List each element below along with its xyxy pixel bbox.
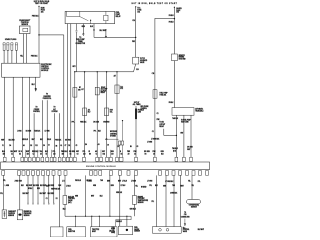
svg-text:BLK WHT: BLK WHT [198, 229, 204, 231]
svg-text:BRN: BRN [111, 185, 114, 187]
svg-text:PUMP: PUMP [111, 229, 115, 231]
svg-text:TO TCC: TO TCC [140, 58, 145, 60]
svg-text:SENSOR: SENSOR [138, 202, 144, 204]
svg-text:CHB BLK: CHB BLK [116, 221, 122, 223]
svg-text:FUEL: FUEL [111, 227, 115, 229]
svg-text:DK GRN: DK GRN [26, 131, 31, 133]
svg-text:W BLK: W BLK [28, 188, 32, 190]
svg-text:D6: D6 [145, 153, 147, 155]
svg-text:W/CRUISE: W/CRUISE [110, 131, 117, 133]
svg-text:PURGE SOL: PURGE SOL [43, 98, 52, 100]
svg-text:FUEL PUMP: FUEL PUMP [160, 92, 168, 94]
svg-text:WHT: WHT [51, 188, 54, 190]
svg-text:C6: C6 [137, 146, 139, 148]
svg-text:SOL: SOL [120, 88, 123, 90]
svg-text:FUSIBLE: FUSIBLE [138, 110, 144, 112]
svg-text:SENSOR: SENSOR [191, 207, 197, 209]
svg-text:HOT IN RUN, BULB TEST OR START: HOT IN RUN, BULB TEST OR START [132, 2, 178, 5]
svg-text:SOLENOID: SOLENOID [140, 60, 147, 62]
svg-text:LT GRN: LT GRN [86, 180, 91, 182]
svg-text:BLK WHT: BLK WHT [100, 30, 107, 32]
svg-text:YEL: YEL [135, 185, 138, 187]
svg-text:LT GRN: LT GRN [147, 180, 152, 182]
svg-text:D2: D2 [19, 153, 21, 155]
svg-text:WHT: WHT [26, 151, 29, 153]
svg-text:F8 BLU: F8 BLU [169, 15, 174, 17]
svg-text:ELC: ELC [183, 227, 186, 229]
svg-text:BRN: BRN [107, 180, 110, 182]
svg-text:BODY: BODY [92, 231, 96, 233]
svg-text:PPL: PPL [152, 201, 155, 203]
svg-text:D2: D2 [68, 145, 70, 147]
svg-text:B6: B6 [56, 145, 58, 147]
svg-text:SYSTEM: SYSTEM [110, 136, 117, 138]
svg-text:PPL: PPL [94, 131, 97, 133]
svg-text:C8: C8 [77, 153, 79, 155]
svg-text:THROTTLE: THROTTLE [92, 229, 99, 231]
svg-text:CONTROL: CONTROL [68, 198, 75, 200]
svg-text:CUTOUT: CUTOUT [159, 124, 165, 126]
svg-text:BLK: BLK [98, 131, 101, 133]
svg-text:WHT: WHT [187, 149, 190, 151]
svg-text:C16: C16 [53, 153, 56, 155]
svg-text:LT BLU: LT BLU [66, 185, 71, 187]
svg-text:L GRN: L GRN [5, 185, 9, 187]
svg-text:GRN: GRN [93, 185, 96, 187]
svg-text:DK GRN: DK GRN [144, 151, 150, 153]
svg-text:ECM I: ECM I [41, 8, 46, 10]
svg-text:FUEL: FUEL [68, 229, 72, 231]
svg-text:RLY: RLY [88, 111, 91, 113]
svg-text:BLK WHT: BLK WHT [23, 193, 29, 195]
svg-text:CLUTCH: CLUTCH [101, 90, 107, 92]
svg-text:PPL: PPL [83, 151, 86, 153]
svg-text:LT GRN: LT GRN [131, 180, 136, 182]
svg-text:PUMP: PUMP [116, 14, 120, 16]
svg-text:TEST OR START: TEST OR START [35, 2, 49, 5]
svg-text:C2: C2 [157, 113, 159, 115]
svg-text:F8 BLK: F8 BLK [169, 102, 174, 104]
svg-text:2 GRN BLK: 2 GRN BLK [170, 193, 177, 195]
svg-text:C2: C2 [33, 153, 35, 155]
svg-text:TO FUEL PUMP: TO FUEL PUMP [181, 120, 191, 122]
svg-text:C18: C18 [152, 73, 155, 75]
svg-text:CONNECTOR: CONNECTOR [181, 216, 190, 218]
svg-text:RED BLK: RED BLK [22, 139, 28, 141]
svg-text:TEST CONN: TEST CONN [181, 122, 189, 124]
svg-text:ENGINE: ENGINE [138, 196, 143, 198]
svg-text:EGR: EGR [110, 110, 113, 112]
svg-text:GRN: GRN [81, 26, 84, 28]
svg-text:C9: C9 [107, 145, 109, 147]
svg-text:C12: C12 [35, 145, 38, 147]
svg-text:BLK: BLK [46, 185, 49, 187]
svg-text:PRIME: PRIME [78, 41, 83, 43]
svg-text:C9: C9 [153, 153, 155, 155]
svg-text:PPL: PPL [53, 151, 56, 153]
svg-text:FUSE: FUSE [137, 10, 141, 12]
svg-text:D1: D1 [56, 198, 58, 200]
svg-text:D1: D1 [70, 153, 72, 155]
svg-text:D9: D9 [43, 145, 45, 147]
svg-text:BLK WHT: BLK WHT [26, 185, 32, 187]
svg-text:LT BLU: LT BLU [122, 180, 127, 182]
svg-text:FUEL PUMP: FUEL PUMP [76, 39, 85, 41]
svg-text:RED: RED [37, 188, 40, 190]
svg-text:ENGINE CONTROL MODULE: ENGINE CONTROL MODULE [86, 166, 116, 168]
svg-text:RED BLK: RED BLK [32, 151, 39, 153]
svg-text:C10: C10 [111, 153, 114, 155]
svg-text:DK GRN: DK GRN [187, 147, 192, 149]
svg-text:DK GRN: DK GRN [69, 151, 75, 153]
svg-text:SYSTEM: SYSTEM [52, 111, 59, 113]
svg-text:PPL: PPL [149, 185, 152, 187]
svg-text:PRESSURE: PRESSURE [24, 213, 32, 215]
svg-text:CONTROL: CONTROL [41, 68, 49, 70]
svg-text:B3: B3 [46, 153, 48, 155]
svg-text:BLK: BLK [21, 185, 24, 187]
svg-text:FUSE: FUSE [176, 10, 180, 12]
svg-text:POSITION: POSITION [21, 22, 29, 24]
svg-text:WHT: WHT [32, 139, 35, 141]
svg-text:LT J: LT J [62, 180, 65, 182]
svg-text:B8: B8 [130, 146, 132, 148]
svg-text:GRY: GRY [102, 151, 105, 153]
svg-text:OXYGEN (O2S): OXYGEN (O2S) [189, 205, 200, 207]
svg-text:YEL: YEL [188, 180, 191, 182]
svg-text:FUSE: FUSE [41, 10, 45, 12]
svg-text:PPL: PPL [198, 181, 201, 183]
svg-text:CRUISE: CRUISE [34, 109, 39, 111]
svg-text:FUEL: FUEL [134, 227, 138, 229]
svg-text:PPL: PPL [0, 193, 3, 195]
svg-text:PNK BLK: PNK BLK [75, 180, 81, 182]
svg-text:D7: D7 [118, 146, 120, 148]
svg-text:SENSOR: SENSOR [8, 215, 14, 217]
svg-text:PPL: PPL [72, 121, 75, 123]
svg-text:BLK RED: BLK RED [9, 140, 15, 142]
svg-text:INJECTOR: INJECTOR [68, 231, 75, 233]
svg-text:C7: C7 [65, 145, 67, 147]
svg-text:B1: B1 [121, 153, 123, 155]
svg-text:ORN BLK: ORN BLK [130, 209, 136, 211]
svg-text:PNK: PNK [157, 119, 160, 121]
svg-text:PNK BLK: PNK BLK [55, 140, 61, 142]
svg-text:DK GRN: DK GRN [65, 140, 70, 142]
svg-text:LT BLU: LT BLU [121, 185, 126, 187]
svg-text:SENDER: SENDER [134, 231, 140, 233]
svg-text:GRY: GRY [180, 132, 183, 134]
svg-text:C3: C3 [48, 145, 50, 147]
svg-text:PNK BLK: PNK BLK [31, 56, 39, 58]
svg-text:CONNECTOR: CONNECTOR [75, 43, 86, 45]
svg-text:CONTROL: CONTROL [110, 133, 117, 135]
svg-text:C5: C5 [76, 145, 78, 147]
svg-text:GRY: GRY [72, 66, 75, 68]
svg-text:WHT: WHT [1, 140, 4, 142]
svg-text:C18: C18 [184, 214, 187, 216]
svg-text:MODULE: MODULE [41, 70, 48, 72]
svg-text:CONTROL: CONTROL [33, 111, 40, 113]
svg-text:SOL: SOL [110, 111, 113, 113]
svg-text:YEL: YEL [20, 56, 23, 58]
svg-text:ORN: ORN [161, 151, 164, 153]
svg-text:IGNITION: IGNITION [41, 66, 49, 68]
svg-text:SERVICE: SERVICE [179, 55, 185, 57]
svg-text:F8 BLU: F8 BLU [169, 21, 174, 23]
svg-text:YEL: YEL [191, 185, 194, 187]
svg-text:PNK BLK: PNK BLK [80, 121, 86, 123]
svg-text:ORN BLK: ORN BLK [116, 192, 122, 194]
svg-text:LT GRN: LT GRN [147, 142, 152, 144]
svg-text:BLK: BLK [100, 196, 103, 198]
svg-text:CONTROL: CONTROL [183, 229, 190, 231]
svg-text:BLK: BLK [155, 185, 158, 187]
svg-text:ENGINE OIL: ENGINE OIL [24, 211, 32, 213]
svg-text:GRN: GRN [75, 196, 78, 198]
svg-text:WHT: WHT [91, 196, 94, 198]
svg-text:TCC: TCC [120, 86, 123, 88]
svg-text:W/O CRUISE: W/O CRUISE [141, 106, 149, 108]
svg-text:PNK BLK: PNK BLK [61, 151, 68, 153]
svg-text:C18: C18 [132, 20, 135, 22]
svg-text:B8: B8 [89, 153, 91, 155]
svg-text:PNK: PNK [132, 41, 135, 43]
svg-text:J GRN: J GRN [17, 131, 21, 133]
svg-text:PNK BLK: PNK BLK [32, 15, 40, 17]
svg-text:D12: D12 [103, 153, 106, 155]
svg-text:LT GRN BLK: LT GRN BLK [151, 139, 159, 141]
svg-text:J BLK: J BLK [47, 139, 51, 141]
svg-text:IGN: IGN [78, 89, 80, 91]
svg-text:GRN: GRN [163, 185, 166, 187]
svg-text:BLK WHT: BLK WHT [11, 151, 18, 153]
svg-text:FUEL: FUEL [116, 12, 120, 14]
svg-text:B12: B12 [161, 153, 164, 155]
svg-text:WHT: WHT [181, 185, 184, 187]
svg-text:BLK RED: BLK RED [48, 193, 54, 195]
svg-text:SOON IND: SOON IND [179, 59, 186, 61]
svg-text:C1: C1 [2, 145, 4, 147]
svg-text:C2: C2 [46, 198, 48, 200]
svg-text:SENSOR: SENSOR [24, 215, 30, 217]
svg-text:DK GRN: DK GRN [93, 121, 99, 123]
svg-text:(IN FUEL: (IN FUEL [109, 230, 115, 232]
svg-text:C2: C2 [152, 131, 154, 133]
svg-text:LT GRN BLK: LT GRN BLK [165, 181, 173, 183]
svg-text:BLU: BLU [2, 151, 5, 153]
svg-text:PNK: PNK [58, 185, 61, 187]
svg-text:C1: C1 [11, 153, 13, 155]
svg-text:POSITION: POSITION [8, 213, 15, 215]
svg-text:ENGINE: ENGINE [179, 57, 184, 59]
svg-text:J RED: J RED [15, 180, 19, 182]
svg-text:GRY: GRY [76, 151, 79, 153]
svg-text:ELECTRONIC: ELECTRONIC [41, 64, 52, 66]
svg-text:LINK: LINK [138, 111, 141, 113]
svg-text:W SEND: W SEND [141, 187, 146, 189]
svg-text:B: B [120, 151, 121, 153]
svg-text:S18: S18 [136, 69, 139, 71]
svg-text:B2: B2 [30, 145, 32, 147]
svg-text:BLK WHT: BLK WHT [40, 193, 46, 195]
svg-text:BRN: BRN [106, 122, 109, 124]
svg-text:C5: C5 [96, 153, 98, 155]
